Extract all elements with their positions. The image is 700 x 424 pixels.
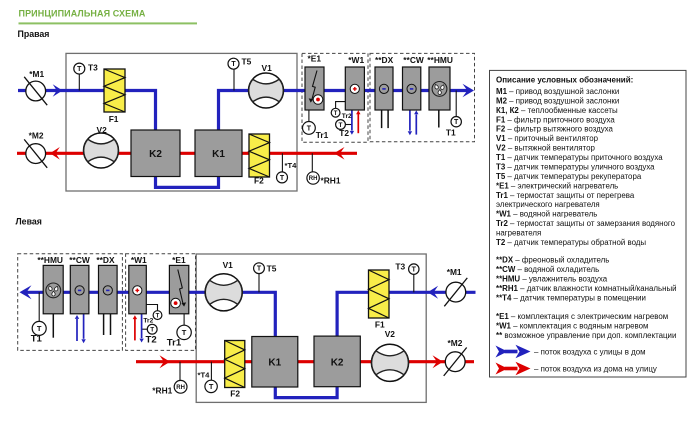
svg-text:F1: F1 <box>109 114 119 124</box>
svg-text:Правая: Правая <box>18 29 50 39</box>
svg-text:**RH1 – датчик влажности комна: **RH1 – датчик влажности комнатный/канал… <box>496 284 677 293</box>
svg-text:V1: V1 <box>262 63 273 73</box>
svg-text:*RH1: *RH1 <box>152 386 172 396</box>
svg-text:T: T <box>280 175 285 182</box>
svg-text:**Т4 – датчик температуры в по: **Т4 – датчик температуры в помещении <box>496 293 646 302</box>
svg-text:М2 – привод воздушной заслонки: М2 – привод воздушной заслонки <box>496 96 619 105</box>
svg-text:T: T <box>156 313 160 319</box>
svg-text:V1 – приточный вентилятор: V1 – приточный вентилятор <box>496 134 599 143</box>
svg-text:** возможное управление при до: ** возможное управление при доп. комплек… <box>496 331 676 340</box>
svg-text:K1: K1 <box>268 358 281 369</box>
svg-text:T1: T1 <box>446 128 456 138</box>
svg-text:Tr1 – термостат защиты от пере: Tr1 – термостат защиты от перегрева <box>496 191 635 200</box>
svg-text:Т2 – датчик температуры обрат: Т2 – датчик температуры обратной воды <box>496 238 646 247</box>
svg-text:T: T <box>182 328 187 337</box>
svg-text:K2: K2 <box>331 358 344 369</box>
svg-text:*Е1 – электрический нагревател: *Е1 – электрический нагреватель <box>496 181 618 190</box>
svg-text:T: T <box>454 119 459 126</box>
svg-text:*W1: *W1 <box>131 255 147 265</box>
svg-text:нагревателя: нагревателя <box>496 229 541 238</box>
svg-text:T: T <box>209 382 214 391</box>
svg-text:Tr2: Tr2 <box>143 318 153 325</box>
svg-text:*M1: *M1 <box>29 69 44 79</box>
svg-text:*Е1 – комплектация с электриче: *Е1 – комплектация с электрическим нагре… <box>496 312 668 321</box>
svg-text:V2: V2 <box>97 125 108 135</box>
svg-text:T5: T5 <box>267 263 277 273</box>
svg-text:*T4: *T4 <box>285 161 298 170</box>
svg-text:*W1: *W1 <box>348 55 364 65</box>
svg-text:**HMU: **HMU <box>37 255 63 265</box>
svg-text:V2 – вытяжной вентилятор: V2 – вытяжной вентилятор <box>496 144 595 153</box>
svg-text:Т5 – датчик температуры рекупе: Т5 – датчик температуры рекуператора <box>496 172 642 181</box>
svg-text:*W1 – водяной нагреватель: *W1 – водяной нагреватель <box>496 210 597 219</box>
svg-text:T: T <box>150 327 154 334</box>
svg-text:**HMU: **HMU <box>427 55 453 65</box>
svg-text:F2: F2 <box>254 176 264 186</box>
svg-text:T3: T3 <box>88 62 98 72</box>
svg-text:K2: K2 <box>149 149 162 160</box>
svg-text:F2 – фильтр вытяжного воздуха: F2 – фильтр вытяжного воздуха <box>496 125 613 134</box>
svg-text:RH: RH <box>309 176 318 182</box>
svg-text:*M2: *M2 <box>448 338 463 348</box>
svg-text:T2: T2 <box>146 335 157 346</box>
svg-text:Т1 – датчик температуры приточ: Т1 – датчик температуры приточного возду… <box>496 153 663 162</box>
svg-text:**DX – фреоновый охладитель: **DX – фреоновый охладитель <box>496 256 609 265</box>
svg-text:T2: T2 <box>339 128 349 138</box>
svg-text:K1: K1 <box>212 149 225 160</box>
svg-text:Левая: Левая <box>16 217 42 227</box>
svg-text:*E1: *E1 <box>172 255 186 265</box>
svg-text:– поток воздуха с улицы в дом: – поток воздуха с улицы в дом <box>534 348 646 357</box>
svg-text:T: T <box>77 66 82 73</box>
svg-text:*E1: *E1 <box>308 54 322 64</box>
svg-text:**CW: **CW <box>403 55 424 65</box>
svg-text:T3: T3 <box>395 261 405 271</box>
svg-text:T: T <box>412 267 417 274</box>
svg-text:К1, К2 – теплообменные кассеты: К1, К2 – теплообменные кассеты <box>496 106 618 115</box>
svg-text:F1 – фильтр приточного воздуха: F1 – фильтр приточного воздуха <box>496 115 615 124</box>
svg-text:RH: RH <box>176 385 185 391</box>
svg-text:T1: T1 <box>31 334 43 345</box>
svg-text:F1: F1 <box>375 319 385 329</box>
svg-text:ПРИНЦИПИАЛЬНАЯ СХЕМА: ПРИНЦИПИАЛЬНАЯ СХЕМА <box>19 9 146 19</box>
svg-text:*M2: *M2 <box>29 130 44 140</box>
svg-text:Т3 – датчик температуры улично: Т3 – датчик температуры уличного воздуха <box>496 163 655 172</box>
svg-text:**DX: **DX <box>375 55 394 65</box>
svg-text:Tr2: Tr2 <box>342 113 352 120</box>
svg-text:**HMU – увлажнитель воздуха: **HMU – увлажнитель воздуха <box>496 274 608 283</box>
svg-text:Tr1: Tr1 <box>316 130 329 140</box>
svg-text:– поток воздуха из дома на ул: – поток воздуха из дома на улицу <box>534 365 657 374</box>
svg-text:**DX: **DX <box>96 255 115 265</box>
svg-text:V2: V2 <box>385 329 396 339</box>
svg-text:*W1 – комплектация с водяным н: *W1 – комплектация с водяным нагревом <box>496 322 648 331</box>
svg-text:T: T <box>257 266 262 273</box>
svg-text:Tr2 – термостат защиты от заме: Tr2 – термостат защиты от замерзания вод… <box>496 219 676 228</box>
svg-text:**CW – водяной охладитель: **CW – водяной охладитель <box>496 265 599 274</box>
svg-text:М1 – привод воздушной заслонки: М1 – привод воздушной заслонки <box>496 87 619 96</box>
svg-text:Описание условных обозначений:: Описание условных обозначений: <box>496 75 633 84</box>
svg-text:**CW: **CW <box>69 255 90 265</box>
svg-text:T5: T5 <box>242 57 252 67</box>
svg-text:V1: V1 <box>223 260 234 270</box>
svg-text:T: T <box>334 111 338 117</box>
svg-text:Tr1: Tr1 <box>167 338 182 349</box>
svg-text:T: T <box>307 125 312 132</box>
svg-text:T: T <box>231 61 236 68</box>
svg-text:T: T <box>37 324 42 333</box>
svg-text:*RH1: *RH1 <box>321 175 341 185</box>
svg-text:*T4: *T4 <box>198 371 211 380</box>
svg-text:*M1: *M1 <box>447 267 462 277</box>
svg-text:электрического нагревателя: электрического нагревателя <box>496 200 600 209</box>
svg-text:F2: F2 <box>230 388 240 398</box>
